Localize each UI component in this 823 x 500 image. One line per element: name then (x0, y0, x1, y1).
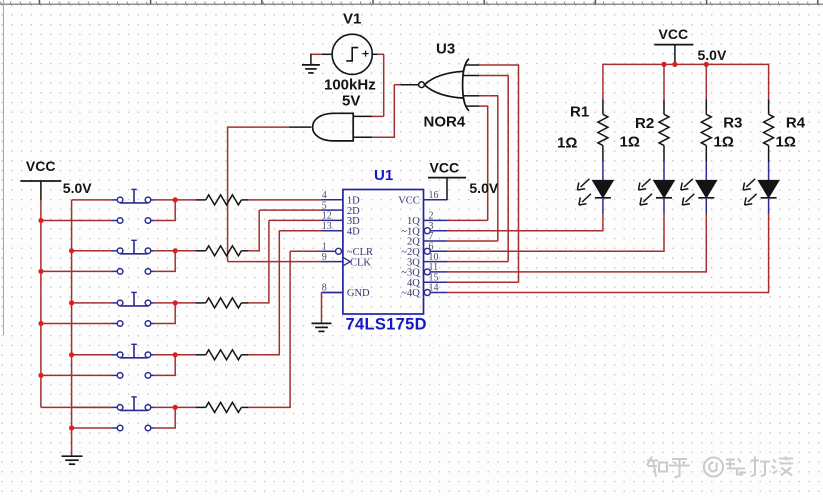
junctions on rail B (69, 248, 74, 430)
svg-text:1Ω: 1Ω (776, 134, 796, 151)
wire VCC to R2 (663, 64, 665, 115)
clock source V1 (332, 34, 372, 74)
svg-text:R3: R3 (723, 115, 742, 132)
svg-text:14: 14 (429, 283, 439, 294)
wire VCC rail right (603, 63, 769, 65)
wire switch row5 join (154, 407, 196, 428)
resistor R1 (598, 114, 608, 145)
open switch row1 bottom (112, 218, 155, 224)
label 74LS175D (346, 315, 427, 333)
wire ground vertical rail B (72, 200, 112, 456)
resistor R3 (701, 114, 711, 145)
svg-text:4D: 4D (347, 226, 360, 237)
svg-text:1Ω: 1Ω (557, 134, 577, 151)
wire V1 plus lead (372, 53, 384, 55)
svg-text:74LS175D: 74LS175D (346, 315, 427, 333)
svg-text:100kHz: 100kHz (324, 77, 376, 94)
label 5.0V left (63, 180, 92, 196)
wire VCC to R3 (705, 64, 707, 115)
label 5V (342, 93, 360, 110)
wire LED3 cathode (705, 198, 707, 273)
wire VCC to R1 (602, 64, 604, 115)
wire row2 to 2D (248, 210, 322, 251)
ground at V1 (302, 65, 320, 73)
svg-text:GND: GND (347, 288, 370, 299)
svg-text:1Ω: 1Ω (620, 134, 640, 151)
wire ~4Q to LED4 (447, 292, 769, 294)
series resistor row4 (196, 350, 249, 360)
chip U1 right pin leads (424, 200, 448, 296)
power VCC at U1 (428, 178, 466, 201)
label R2 (635, 115, 654, 132)
svg-text:VCC: VCC (430, 159, 460, 175)
sheet left border (3, 0, 5, 335)
pushbutton switch row1 top (112, 189, 155, 203)
series resistor row5 (196, 402, 249, 412)
label NOR4 (424, 114, 466, 131)
op NOR4 gate U3 (419, 59, 469, 111)
wire switch row2 join (154, 251, 196, 272)
wire NOR input1 from 4Q (447, 65, 519, 282)
wire NOR input4 from 1Q (447, 106, 488, 220)
open switch row5 bottom (112, 425, 155, 431)
wire row4 to 4D (248, 231, 322, 356)
LED4 (743, 179, 779, 205)
chip U1 CLK edge triangle (343, 257, 350, 266)
svg-text:5.0V: 5.0V (469, 180, 498, 196)
svg-text:U3: U3 (436, 41, 455, 58)
wire R4 to LED4 (768, 145, 770, 180)
label 100kHz (324, 77, 376, 94)
label R3 (723, 115, 742, 132)
resistor R4 (764, 114, 774, 145)
open switch row4 bottom (112, 373, 155, 379)
chip U1 pin numbers (322, 190, 439, 294)
label R1 (570, 103, 589, 120)
wire NOR output to AND bottom input (353, 85, 418, 138)
wire ~3Q to LED3 (447, 271, 706, 273)
chip U1 pin names (347, 196, 420, 300)
wire row1 to 1D (248, 199, 322, 201)
label 5.0V right (698, 47, 727, 63)
svg-text:VCC: VCC (26, 158, 56, 174)
wire VCC-left vertical rail A (41, 200, 112, 408)
LED1 (577, 179, 613, 205)
LED3 (681, 179, 717, 205)
svg-text:5V: 5V (342, 93, 360, 110)
wire LED4 cathode (768, 198, 770, 293)
pushbutton switch row2 top (112, 240, 155, 254)
junctions on rail A (38, 218, 43, 378)
wire V1 to AND top input (353, 54, 384, 116)
pushbutton switch row3 top (112, 292, 155, 306)
power VCC left (20, 181, 61, 201)
label VCC at U1 (430, 159, 460, 175)
series resistor row1 (196, 195, 249, 205)
wire AND output to CLK (227, 127, 322, 262)
label U1 (374, 167, 393, 184)
wire R2 to LED2 (663, 145, 665, 180)
open switch row2 bottom (112, 269, 155, 275)
svg-text:9: 9 (322, 252, 327, 263)
series resistor row3 (196, 298, 249, 308)
wire R3 to LED3 (705, 145, 707, 180)
svg-text:~4Q: ~4Q (401, 288, 420, 299)
wire switch row1 join (154, 200, 196, 221)
svg-text:5.0V: 5.0V (63, 180, 92, 196)
label VCC right (659, 26, 689, 42)
svg-text:U1: U1 (374, 167, 393, 184)
AND2 gate U2 (313, 113, 354, 141)
svg-text:V1: V1 (343, 11, 361, 28)
wire R1 to LED1 (602, 145, 604, 180)
resistor R2 (659, 114, 669, 145)
wire NOR input3 from 2Q (447, 96, 499, 241)
junctions VCC rail (661, 62, 709, 67)
svg-text:1Ω: 1Ω (714, 134, 734, 151)
svg-text:VCC: VCC (659, 26, 689, 42)
wire NOR input2 from 3Q (447, 76, 509, 262)
series resistor row2 (196, 246, 249, 256)
label R1 value 1Ω (557, 134, 577, 151)
wire VCC to R4 (768, 64, 770, 115)
wire ~1Q to LED1 (447, 230, 603, 232)
label VCC left (26, 158, 56, 174)
svg-text:NOR4: NOR4 (424, 114, 466, 131)
label 5.0V at U1 (469, 180, 498, 196)
wire row3 to 3D (248, 220, 322, 303)
svg-text:R2: R2 (635, 115, 654, 132)
power VCC right (654, 45, 693, 65)
wire switch row3 join (154, 303, 196, 324)
sheet top border ruler (0, 0, 823, 4)
svg-text:R1: R1 (570, 103, 589, 120)
svg-text:5.0V: 5.0V (698, 47, 727, 63)
open switch row3 bottom (112, 321, 155, 327)
junction row4 (173, 352, 178, 357)
junction row3 (173, 300, 178, 305)
wire LED2 cathode (663, 198, 665, 252)
LED2 (639, 179, 675, 205)
chip U1 body 74LS175D (343, 190, 424, 315)
watermark zhihu (647, 457, 794, 479)
ground at left rail (62, 456, 83, 464)
svg-text:VCC: VCC (398, 196, 420, 207)
chip U1 left pin leads (321, 200, 343, 293)
wire ~2Q to LED2 (447, 250, 664, 252)
wire switch row4 join (154, 355, 196, 376)
svg-text:R4: R4 (786, 115, 806, 132)
wire row5 to ~CLR (248, 251, 322, 408)
wire V1 left lead (311, 54, 332, 65)
label R2 value 1Ω (620, 134, 640, 151)
label U3 (436, 41, 455, 58)
label V1 (343, 11, 361, 28)
label R4 value 1Ω (776, 134, 796, 151)
label R3 value 1Ω (714, 134, 734, 151)
pushbutton switch row5 top (112, 397, 155, 411)
ground at U1 pin8 (312, 323, 332, 331)
junction row1 (173, 197, 178, 202)
wire LED1 cathode (602, 198, 604, 232)
svg-text:16: 16 (429, 190, 439, 201)
junction row2 (173, 248, 178, 253)
wire GND pin8 (322, 293, 343, 324)
junction row5 (173, 405, 178, 410)
pushbutton switch row4 top (112, 344, 155, 358)
svg-text:CLK: CLK (350, 257, 371, 268)
svg-text:13: 13 (322, 221, 332, 232)
label R4 (786, 115, 806, 132)
